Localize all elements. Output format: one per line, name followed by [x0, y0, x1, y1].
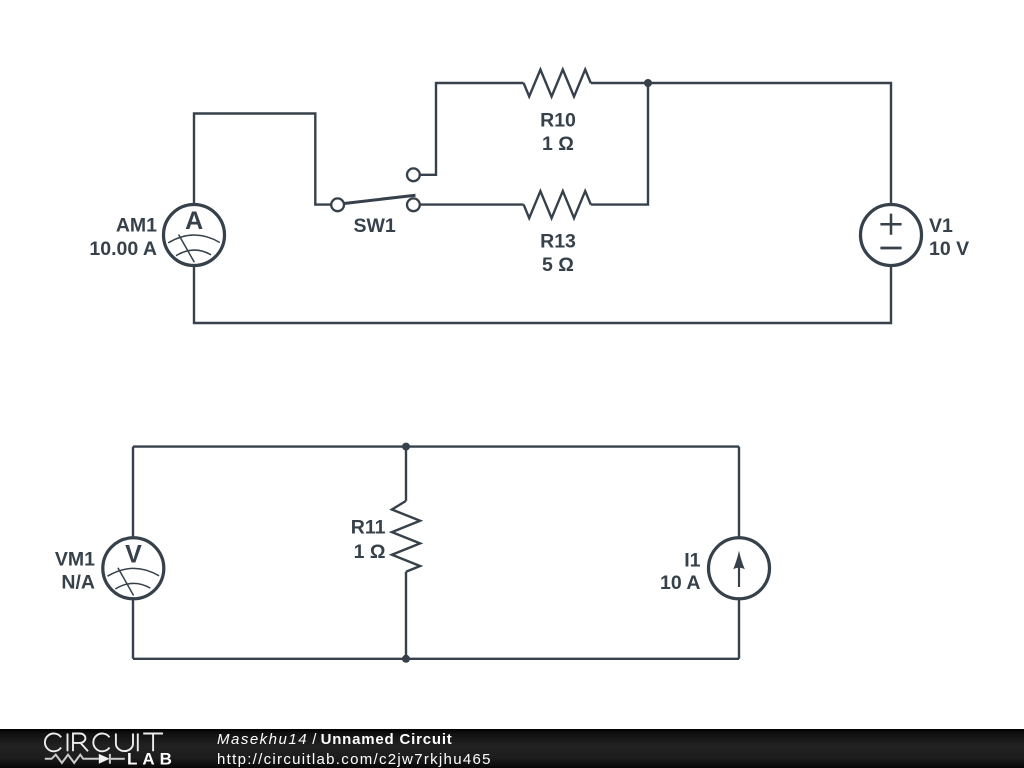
wire from switch lower throw to R13 left lead	[420, 203, 524, 205]
AM1 meter small arc	[176, 250, 211, 256]
resistor R11	[392, 501, 420, 572]
node top junction dot	[402, 443, 410, 451]
VM1 needle	[118, 568, 134, 596]
SW1 upper throw contact	[407, 168, 420, 181]
svg-text:10 A: 10 A	[660, 572, 700, 594]
wire from AM1 top to switch pole	[194, 114, 331, 205]
bottom circuit bottom rail	[133, 658, 739, 660]
svg-text:I1: I1	[684, 550, 700, 572]
VM1 meter big arc	[108, 568, 160, 576]
svg-text:VM1: VM1	[55, 549, 95, 571]
bottom circuit top rail	[133, 445, 739, 447]
ammeter AM1	[89, 205, 224, 266]
V1 plus sign	[880, 214, 901, 235]
wire R11 leads	[405, 447, 407, 659]
svg-text:10 V: 10 V	[929, 238, 969, 260]
svg-text:R13: R13	[540, 231, 576, 253]
resistor R13	[524, 191, 591, 218]
AM1 needle	[179, 235, 195, 263]
node A junction dot	[644, 79, 652, 87]
svg-text:V: V	[125, 540, 142, 568]
V1 minus sign	[880, 247, 901, 250]
logo resistor-diode glyph	[45, 754, 125, 764]
svg-text:SW1: SW1	[353, 215, 395, 237]
SW1 lower throw contact	[407, 198, 420, 211]
svg-text:R10: R10	[540, 110, 576, 132]
svg-text:AM1: AM1	[116, 214, 157, 236]
logo diode triangle	[99, 754, 110, 764]
footer bar	[0, 729, 1024, 768]
VM1 meter small arc	[115, 583, 150, 589]
wire from R10 right to node A and on to V1 top	[591, 83, 891, 205]
svg-text:V1: V1	[929, 215, 953, 237]
wire bottom rail V1 to AM1	[194, 265, 891, 323]
svg-text:1 Ω: 1 Ω	[354, 541, 386, 563]
SW1 pole contact	[331, 198, 344, 211]
wire right rail I1	[738, 447, 740, 659]
wire from node A down to R13 right lead	[591, 83, 648, 205]
wire from switch upper throw to R10 left lead	[420, 83, 524, 175]
switch SW1	[331, 168, 420, 237]
svg-text:http://circuitlab.com/c2jw7rkj: http://circuitlab.com/c2jw7rkjhu465	[217, 751, 492, 768]
svg-text:1 Ω: 1 Ω	[542, 133, 574, 155]
voltmeter VM1	[55, 538, 164, 599]
AM1 meter big arc	[168, 235, 220, 243]
wire left rail VM1	[132, 447, 134, 659]
I1 arrow shaft	[738, 563, 740, 587]
svg-text:Masekhu14 / Unnamed Circuit: Masekhu14 / Unnamed Circuit	[217, 731, 453, 748]
CircuitLab logo CIRCUIT wordmark	[45, 734, 163, 752]
node bottom junction dot	[402, 655, 410, 663]
current source I1	[660, 538, 769, 599]
SW1 blade	[343, 195, 416, 203]
svg-text:N/A: N/A	[61, 572, 95, 594]
svg-text:A: A	[185, 207, 203, 235]
resistor R10	[524, 70, 591, 97]
svg-text:5 Ω: 5 Ω	[542, 254, 574, 276]
svg-text:LAB: LAB	[127, 750, 177, 768]
voltage source V1	[861, 205, 970, 266]
svg-text:10.00 A: 10.00 A	[89, 238, 157, 260]
I1 arrow head	[733, 551, 745, 570]
svg-text:R11: R11	[351, 517, 386, 539]
